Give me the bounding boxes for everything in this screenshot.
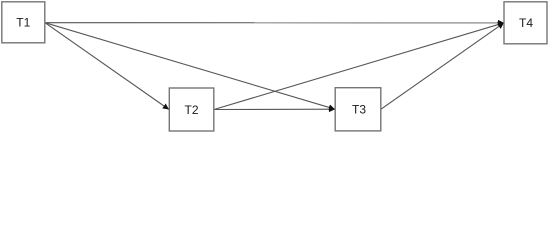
wire T1 to T2 [45, 23, 169, 110]
node T2 [169, 88, 214, 131]
svg-text:T3: T3 [352, 103, 366, 117]
wire T2 to T3 [214, 108, 335, 110]
node T3 [335, 88, 381, 131]
node T4 [504, 2, 547, 44]
svg-text:T1: T1 [16, 16, 30, 30]
svg-text:T4: T4 [519, 16, 533, 30]
wire T2 to T4 [214, 23, 504, 110]
wire T1 to T3 [45, 23, 335, 110]
svg-text:T2: T2 [184, 103, 198, 117]
node T1 [2, 2, 45, 43]
wire T3 to T4 [381, 23, 504, 109]
wire T1 to T4 [45, 22, 504, 24]
